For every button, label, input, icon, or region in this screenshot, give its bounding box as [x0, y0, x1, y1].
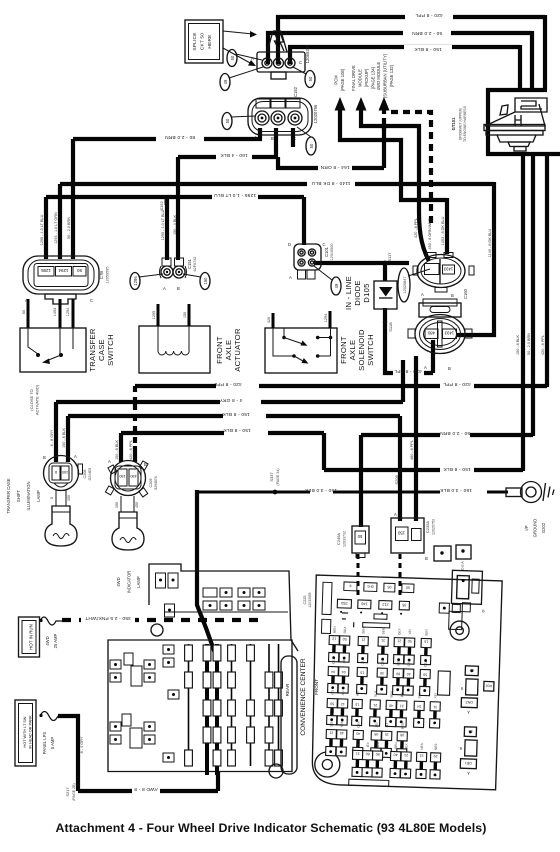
oval tag 49 below C101: [331, 277, 341, 295]
wire 1140 DK BLU bus y184: C7B pin B across to x494: [60, 184, 494, 259]
svg-text:BEN: BEN: [400, 722, 404, 729]
svg-text:OEX: OEX: [397, 627, 401, 635]
svg-text:150: 150: [62, 470, 68, 474]
svg-text:ONZ: ONZ: [465, 700, 474, 704]
wire 80 BRN: K2 pin A down, left bus y139 to C7B pin C: [73, 128, 260, 259]
svg-text:150: 150: [183, 312, 187, 318]
svg-text:XLI: XLI: [385, 723, 389, 728]
svg-text:A: A: [394, 512, 397, 517]
svg-text:B: B: [271, 136, 274, 141]
svg-text:C: C: [293, 136, 296, 141]
wire 420 PPL x416 drop to C235A pin B: [414, 356, 418, 521]
svg-text:04: 04: [331, 670, 335, 674]
transfer case switch box: [20, 328, 86, 372]
svg-text:150 - 4 BLK: 150 - 4 BLK: [173, 215, 177, 236]
svg-text:12020756: 12020756: [313, 104, 318, 123]
svg-text:LAMP: LAMP: [36, 490, 41, 502]
svg-text:H02: H02: [486, 684, 493, 688]
svg-text:1493: 1493: [443, 267, 453, 272]
wire 420 PPL dashed drop to lamp socket2 pin B: [133, 386, 137, 400]
svg-text:D105: D105: [362, 283, 371, 302]
svg-text:250: 250: [341, 601, 347, 605]
svg-text:450 - 8 ORN/WHT: 450 - 8 ORN/WHT: [428, 218, 432, 250]
svg-text:50: 50: [357, 534, 362, 539]
svg-text:4WD: 4WD: [116, 577, 121, 586]
splice label S152 tick: [164, 197, 166, 205]
svg-text:C: C: [323, 242, 326, 247]
svg-text:4WD MODULE: 4WD MODULE: [376, 62, 381, 91]
svg-text:OEA: OEA: [331, 656, 335, 664]
svg-text:140: 140: [361, 601, 367, 605]
svg-text:21: 21: [400, 704, 404, 708]
C7B terminal 1294: [56, 267, 72, 277]
svg-text:B: B: [43, 455, 46, 460]
K2 pin C: [288, 111, 302, 125]
svg-text:XEI: XEI: [342, 658, 346, 663]
svg-text:02: 02: [470, 668, 474, 672]
svg-text:420 - 8 PPL: 420 - 8 PPL: [394, 368, 422, 374]
svg-text:8: 8: [349, 584, 351, 588]
wire 50 BRN: K1 pin A up to y33 then right: [268, 33, 532, 64]
svg-text:SEN: SEN: [424, 629, 428, 636]
svg-text:04: 04: [417, 704, 421, 708]
svg-text:SLD: SLD: [376, 741, 380, 748]
svg-text:1294: 1294: [58, 268, 68, 273]
svg-text:50: 50: [308, 76, 313, 81]
left fuse block outline: [108, 640, 292, 772]
svg-text:A: A: [421, 292, 424, 297]
svg-text:TRANSFER CASE: TRANSFER CASE: [6, 478, 11, 513]
svg-text:150 - 3.0 BLK: 150 - 3.0 BLK: [439, 487, 472, 493]
svg-text:AXLE: AXLE: [348, 340, 357, 361]
wire 160 ORN: K2 pin B branch down to y168 right to PCM arrow riser: [278, 128, 384, 168]
svg-text:B: B: [425, 556, 428, 561]
svg-text:(PAGE 34): (PAGE 34): [276, 468, 280, 485]
svg-text:420 - 8 PPL: 420 - 8 PPL: [415, 12, 443, 18]
svg-text:SWITCH: SWITCH: [106, 334, 115, 366]
svg-text:80 - 2.0 BRN: 80 - 2.0 BRN: [165, 134, 195, 140]
svg-text:1140 - 8 DK BLU: 1140 - 8 DK BLU: [311, 180, 350, 186]
svg-text:GROUND: GROUND: [533, 519, 538, 538]
wire 150 BLK: K1 pin C up to y47 then right: [290, 47, 520, 64]
svg-text:50: 50: [309, 143, 314, 148]
junction PCM/1140: [399, 182, 403, 186]
svg-text:OEX: OEX: [356, 720, 360, 728]
svg-text:212: 212: [382, 602, 388, 606]
svg-text:SEN: SEN: [394, 742, 398, 749]
svg-text:12065287: 12065287: [305, 44, 310, 63]
svg-text:SEN: SEN: [381, 627, 385, 634]
svg-text:150 - 8 BLK: 150 - 8 BLK: [414, 46, 442, 52]
wire dashed C249A to convenience center: [357, 554, 360, 598]
svg-text:50 - 2.0 BRN: 50 - 2.0 BRN: [440, 430, 470, 436]
svg-text:TO ENGINE HARNESS: TO ENGINE HARNESS: [463, 105, 467, 142]
wire FINAL DRIVE MODULE: arrow down, right y126, down x419, diagonal to C150 pin A: [361, 107, 429, 261]
svg-text:(SUBURBAN (UTILITY): (SUBURBAN (UTILITY): [383, 53, 388, 98]
svg-text:150 - 8 BLK: 150 - 8 BLK: [516, 335, 520, 356]
front axle actuator box: [139, 326, 210, 373]
svg-text:50: 50: [343, 637, 347, 641]
svg-text:FRONT: FRONT: [339, 336, 348, 364]
ground ring terminal G202: [506, 488, 522, 497]
svg-text:HOT WITH LT SW: HOT WITH LT SW: [23, 716, 27, 747]
svg-text:420 - 8 PPL: 420 - 8 PPL: [414, 218, 418, 238]
svg-text:CKT 50: CKT 50: [200, 33, 206, 51]
ground symbol: [543, 483, 554, 501]
svg-text:XLI: XLI: [341, 690, 345, 695]
svg-text:150: 150: [67, 495, 71, 501]
svg-text:D: D: [288, 242, 291, 247]
oval tag 150 right of C151: [200, 273, 210, 290]
svg-text:8 - 8 GRY: 8 - 8 GRY: [50, 429, 54, 446]
svg-text:OEX: OEX: [407, 659, 411, 667]
svg-text:I/P: I/P: [524, 525, 529, 530]
connector C160: [423, 299, 457, 306]
wire 420 PPL below grommet down right edge: [545, 152, 549, 387]
svg-text:ACTUATOR: ACTUATOR: [233, 328, 242, 372]
wire diode bottom lead down to y373: [385, 308, 433, 373]
connector C249A: [352, 526, 369, 553]
wire dashed C235A to convenience center: [399, 554, 402, 598]
svg-text:420 - 8 PPL: 420 - 8 PPL: [541, 335, 545, 355]
C7B terminal 50: [73, 267, 86, 277]
wire 420 PPL: connector K1 pin B up and right to GT101: [278, 17, 545, 64]
GT101 left bypass vertical: [486, 88, 490, 156]
C150 oval tag: [398, 268, 410, 302]
svg-text:S217: S217: [65, 787, 70, 797]
junction below diode: [383, 320, 387, 324]
svg-text:A: A: [424, 365, 427, 370]
svg-text:C152: C152: [293, 86, 298, 97]
svg-text:1295 - 1.0 LT BLU: 1295 - 1.0 LT BLU: [161, 209, 165, 240]
svg-text:XEI: XEI: [433, 693, 437, 698]
connector C150: [417, 255, 465, 288]
svg-text:B: B: [448, 366, 451, 371]
svg-text:Attachment 4 - Four Wheel Driv: Attachment 4 - Four Wheel Drive Indicato…: [55, 821, 486, 835]
svg-text:150 - 8 BLK: 150 - 8 BLK: [62, 428, 66, 449]
GT101 lower bar: [486, 152, 560, 156]
svg-text:420 - 8 PPL: 420 - 8 PPL: [129, 440, 133, 460]
svg-text:12: 12: [332, 637, 336, 641]
svg-text:31: 31: [433, 705, 437, 709]
connector C2 above convenience center: [456, 545, 471, 559]
svg-text:04: 04: [342, 670, 346, 674]
svg-text:(PAGE 132): (PAGE 132): [389, 64, 394, 87]
K2 top slots: [256, 99, 270, 108]
wire PANEL LPS fuse to fuse block: right, down x78, along y791, up x218: [58, 716, 218, 791]
svg-text:XEI: XEI: [330, 690, 334, 695]
oval tag 50 upper: [227, 50, 237, 67]
svg-text:CONVENIENCE CENTER: CONVENIENCE CENTER: [300, 658, 307, 736]
arrowhead 4WD MODULE: [379, 97, 390, 111]
fuse 4WD 25 AMP: [40, 617, 62, 625]
svg-text:C160: C160: [463, 288, 468, 299]
junction module/1140: [417, 182, 421, 186]
svg-text:50 - 2.0 BRN: 50 - 2.0 BRN: [412, 30, 442, 36]
HOT IN RUN box: [19, 617, 40, 657]
svg-text:S337: S337: [269, 472, 274, 482]
svg-text:21: 21: [397, 639, 401, 643]
svg-text:XEI: XEI: [374, 722, 378, 727]
svg-text:450: 450: [135, 502, 139, 508]
svg-text:12059595: 12059595: [106, 267, 110, 284]
svg-text:IN - LINE: IN - LINE: [344, 276, 353, 310]
wire 150 BLK bus y416: socket1 pin A across, down x400 to C235A pin A: [68, 416, 400, 521]
svg-text:29: 29: [434, 754, 438, 758]
svg-text:G202: G202: [541, 522, 546, 533]
svg-text:31: 31: [356, 751, 360, 755]
wire 50 BRN y435: from C249A drop across to x533: [361, 435, 533, 527]
svg-text:4 - 8 GRY: 4 - 8 GRY: [219, 397, 243, 403]
wire 420 PPL vertical at right into GT101 bar: [543, 15, 547, 90]
wire GRY bus y402: lamp socket1 pin B across to solenoid stub: [56, 402, 403, 462]
splice arrow to K1 pin A: [223, 48, 252, 64]
svg-text:NES: NES: [356, 741, 360, 748]
svg-text:BEN: BEN: [332, 626, 336, 633]
GT101 grommet symbol: [484, 98, 547, 151]
svg-text:DIODE: DIODE: [353, 280, 362, 306]
svg-text:TRANSFER: TRANSFER: [88, 328, 97, 372]
svg-text:C101: C101: [324, 246, 329, 257]
svg-text:31: 31: [420, 753, 424, 757]
svg-text:(PAGE 2B): (PAGE 2B): [72, 783, 76, 801]
svg-text:OEA: OEA: [423, 659, 427, 667]
svg-text:150 - 8 BLK: 150 - 8 BLK: [443, 466, 471, 472]
svg-text:CASE: CASE: [97, 339, 106, 361]
svg-text:S152: S152: [159, 201, 164, 211]
svg-text:OE1: OE1: [465, 761, 472, 765]
svg-text:1294 - 1.0 LT GRN: 1294 - 1.0 LT GRN: [54, 212, 58, 244]
svg-text:40: 40: [389, 703, 393, 707]
C7B stub wires to transfer case switch: [28, 299, 73, 328]
svg-text:50: 50: [225, 118, 230, 123]
wire stub x403 up from y402: [401, 360, 405, 402]
svg-text:SEN: SEN: [340, 720, 344, 727]
svg-text:A: A: [254, 135, 257, 140]
svg-text:(CLOSE TO: (CLOSE TO: [29, 389, 34, 410]
wire 4WD MODULE dashed: arrow, right y112, dashed down x431 to C160 top: [382, 108, 386, 130]
splice callout box SPLICE CKT 50 HERE: [185, 20, 223, 63]
svg-text:B: B: [177, 286, 180, 291]
K2 pin B: [271, 111, 285, 125]
svg-text:160 - 4 BLK: 160 - 4 BLK: [220, 152, 248, 158]
svg-text:420 - 8 PPL: 420 - 8 PPL: [214, 381, 242, 387]
svg-text:FRONT: FRONT: [314, 679, 319, 695]
svg-text:1295: 1295: [152, 311, 156, 319]
svg-text:SLD: SLD: [417, 692, 421, 699]
svg-text:PCM: PCM: [334, 75, 339, 85]
connector C7B shell: [23, 256, 99, 294]
wire PCM: arrow down, right y140, down x401, to y200, right to C150 pin B: [340, 107, 447, 254]
svg-text:40: 40: [394, 753, 398, 757]
svg-text:15: 15: [355, 702, 359, 706]
connector C151: [162, 258, 171, 266]
svg-text:SEN: SEN: [329, 720, 333, 727]
svg-text:12: 12: [341, 702, 345, 706]
svg-text:150 - 8 BLK: 150 - 8 BLK: [222, 411, 250, 417]
svg-text:FRONT: FRONT: [215, 336, 224, 364]
GT101 upper bar: [486, 88, 547, 92]
svg-text:50: 50: [230, 55, 235, 60]
svg-text:15: 15: [385, 732, 389, 736]
svg-text:C235A: C235A: [425, 521, 430, 534]
svg-text:A: A: [74, 454, 77, 459]
svg-text:A: A: [289, 275, 292, 280]
svg-text:C249A: C249A: [336, 533, 341, 546]
fuse block column wires and fuse links: [188, 644, 190, 766]
svg-text:150: 150: [397, 531, 405, 536]
junction S337: [273, 490, 278, 495]
svg-text:420: 420: [267, 317, 271, 323]
oval tag 50 below K2: [306, 137, 316, 155]
svg-text:HOT IN RUN: HOT IN RUN: [29, 624, 34, 650]
svg-text:B: B: [451, 293, 454, 298]
svg-text:15: 15: [360, 670, 364, 674]
bulb 1: [56, 490, 66, 506]
svg-text:150: 150: [115, 502, 119, 508]
svg-text:Y: Y: [467, 771, 470, 776]
wire 50 BRN vertical down to GT101 bar: [530, 31, 534, 90]
arrowhead PCM: [335, 97, 346, 111]
svg-text:SEN: SEN: [389, 690, 393, 697]
svg-text:AXLE: AXLE: [224, 340, 233, 361]
svg-text:NES: NES: [434, 744, 438, 751]
svg-text:150: 150: [203, 277, 208, 285]
svg-text:12033732: 12033732: [343, 531, 347, 547]
svg-text:FINAL DRIVE: FINAL DRIVE: [351, 65, 356, 91]
lamp socket C209: [111, 461, 146, 496]
wire 150 BLK vertical down to GT101 bar: [518, 45, 522, 90]
svg-text:1294: 1294: [324, 314, 328, 322]
C7B bottom tab: [45, 294, 76, 304]
svg-text:25 AMP: 25 AMP: [53, 633, 58, 648]
svg-text:420 - 8 PPL: 420 - 8 PPL: [443, 381, 471, 387]
wire 150 BLK bus y432: socket2 pin A across, step down to y470, to x523: [121, 433, 523, 470]
svg-text:C208: C208: [83, 469, 87, 478]
oval tag 50 left of K2: [222, 113, 232, 130]
arrowhead FINAL DRIVE MODULE: [356, 97, 367, 111]
wire S117 node: C101 pin C right to diode top: [314, 261, 409, 265]
connector C235A: [391, 518, 424, 553]
svg-text:12020847: 12020847: [403, 277, 407, 294]
svg-text:(PAGE 108): (PAGE 108): [340, 68, 345, 91]
svg-text:SOLENOID: SOLENOID: [357, 329, 366, 371]
wire K2 pin C stub: [291, 128, 295, 147]
oval tag 1295 left of C151: [130, 273, 140, 290]
svg-text:S208: S208: [394, 475, 399, 485]
svg-text:S117: S117: [387, 252, 392, 262]
svg-text:40: 40: [356, 731, 360, 735]
svg-text:350 - 2.5 PNK/WHT: 350 - 2.5 PNK/WHT: [85, 615, 131, 621]
svg-text:S11B: S11B: [388, 322, 393, 332]
svg-text:150 - 3.0 BLK: 150 - 3.0 BLK: [304, 487, 337, 493]
svg-text:12010500: 12010500: [330, 244, 334, 261]
svg-text:1294: 1294: [66, 308, 70, 316]
svg-text:Y: Y: [467, 710, 470, 715]
svg-text:OEA: OEA: [343, 626, 347, 634]
svg-text:50 - 2.0 BRN: 50 - 2.0 BRN: [527, 333, 531, 355]
connector C101: [294, 244, 321, 270]
svg-text:NES: NES: [420, 743, 424, 750]
svg-text:C: C: [299, 60, 302, 65]
svg-text:SPLICE: SPLICE: [192, 32, 198, 50]
svg-text:IN HEAD OR PARK: IN HEAD OR PARK: [29, 715, 33, 749]
cluster pin row 2: [203, 601, 217, 610]
svg-text:ILLUMINATION: ILLUMINATION: [26, 481, 31, 510]
svg-text:PANEL LPS: PANEL LPS: [42, 732, 47, 755]
svg-text:80: 80: [396, 672, 400, 676]
svg-text:C151: C151: [187, 258, 192, 269]
svg-text:150: 150: [119, 474, 125, 478]
cluster pin row 1: [203, 588, 217, 597]
connector K2 (C152) outer shell: [248, 98, 312, 135]
wire 420 PPL bus y386: [135, 384, 547, 388]
svg-text:164 - 8 ORN: 164 - 8 ORN: [320, 164, 349, 170]
svg-text:INDICATOR: INDICATOR: [127, 571, 132, 594]
svg-text:(PICKUP): (PICKUP): [364, 68, 369, 87]
svg-text:21: 21: [329, 731, 333, 735]
svg-text:40: 40: [380, 671, 384, 675]
svg-text:150 - 8 BLK: 150 - 8 BLK: [223, 427, 251, 433]
svg-text:1493: 1493: [444, 331, 454, 336]
bulb 2: [121, 496, 134, 512]
svg-text:SEN: SEN: [361, 627, 365, 634]
svg-text:50: 50: [330, 702, 334, 706]
svg-text:GROMMET (UPPER): GROMMET (UPPER): [459, 108, 463, 141]
svg-text:480: 480: [427, 331, 435, 336]
svg-text:50: 50: [77, 268, 82, 273]
svg-text:C225: C225: [303, 595, 307, 604]
oval tag 49: [220, 74, 230, 91]
svg-text:150 - 8 BLK: 150 - 8 BLK: [115, 440, 119, 461]
svg-text:AWD 8 - 8: AWD 8 - 8: [134, 786, 158, 792]
svg-text:SEN: SEN: [396, 659, 400, 666]
svg-text:62F0732: 62F0732: [193, 257, 197, 272]
REAR bracket: [281, 656, 297, 774]
svg-text:50 - 2.0 BRN: 50 - 2.0 BRN: [67, 217, 71, 239]
svg-text:LAMP: LAMP: [136, 576, 141, 588]
HOT W/LT SW box: [15, 700, 36, 766]
svg-text:XEI: XEI: [408, 629, 412, 634]
svg-text:1140 - 8 DK BLU: 1140 - 8 DK BLU: [488, 229, 492, 258]
wire branch S152 down to C151 pin A: [165, 197, 169, 260]
svg-text:450: 450: [130, 474, 136, 478]
svg-text:35: 35: [402, 603, 406, 607]
svg-text:02: 02: [468, 729, 472, 733]
junction S117: [383, 261, 388, 266]
wire ground riser x197 down to fuse block: [197, 490, 216, 656]
connector C1 above convenience center: [434, 546, 451, 561]
lamp socket C208: [44, 456, 79, 491]
svg-text:0H1: 0H1: [367, 584, 374, 588]
svg-text:C: C: [90, 298, 93, 303]
svg-text:SLD: SLD: [373, 690, 377, 697]
splice arrow to K1 lightning: [223, 31, 253, 34]
lightning bolt splice mark: [267, 31, 287, 52]
oval tag 50 right of K1: [305, 71, 315, 88]
connector K1 (splice connector): [257, 52, 305, 72]
in-line diode D105: [374, 281, 397, 309]
wire diode top lead: [383, 263, 387, 281]
svg-text:05: 05: [387, 585, 391, 589]
svg-text:1295 - 1.0 LT BLU: 1295 - 1.0 LT BLU: [40, 214, 44, 245]
svg-text:1295 - 1.0 LT BLU: 1295 - 1.0 LT BLU: [214, 192, 256, 198]
svg-text:1493: 1493: [53, 308, 57, 316]
svg-text:50: 50: [406, 585, 410, 589]
svg-text:HERE: HERE: [207, 34, 213, 48]
fuse block mount hole: [269, 764, 283, 778]
svg-text:GT101: GT101: [451, 117, 456, 130]
